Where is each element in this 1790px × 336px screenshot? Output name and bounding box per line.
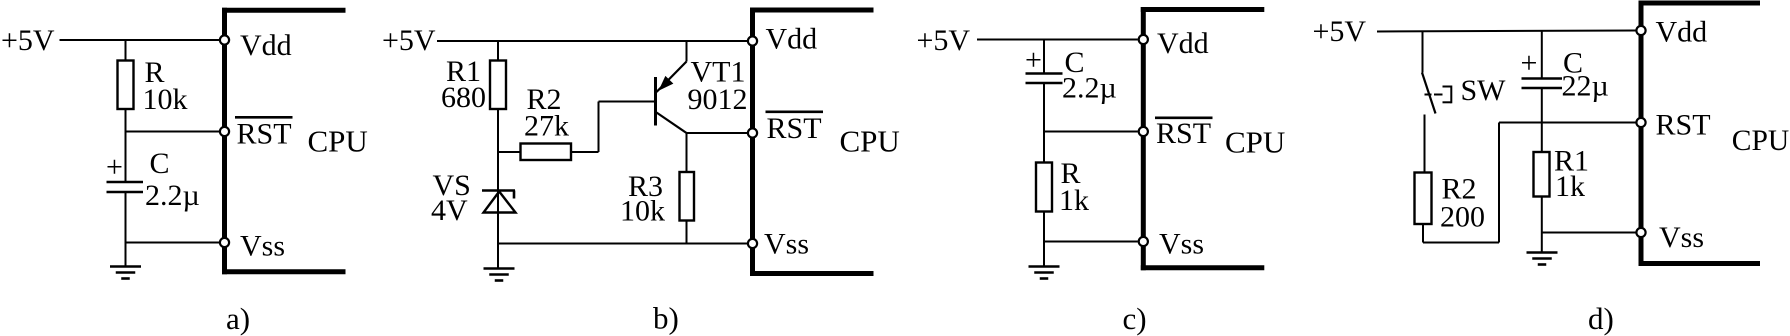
svg-text:+5V: +5V <box>1313 15 1367 48</box>
svg-text:Vdd: Vdd <box>1656 16 1708 49</box>
svg-text:200: 200 <box>1440 201 1485 234</box>
svg-text:Vdd: Vdd <box>766 23 818 56</box>
svg-text:+: + <box>1025 43 1042 76</box>
svg-text:d): d) <box>1588 301 1614 336</box>
svg-text:1k: 1k <box>1555 170 1585 203</box>
svg-text:+5V: +5V <box>1 24 55 57</box>
svg-text:CPU: CPU <box>1732 125 1789 157</box>
svg-text:CPU: CPU <box>308 123 368 158</box>
svg-text:+5V: +5V <box>917 24 971 57</box>
svg-text:Vss: Vss <box>1159 227 1204 260</box>
svg-text:10k: 10k <box>143 83 188 116</box>
svg-text:a): a) <box>226 301 250 336</box>
svg-text:2.2µ: 2.2µ <box>1062 72 1117 105</box>
svg-text:+5V: +5V <box>382 24 436 57</box>
svg-text:RST: RST <box>237 118 292 151</box>
svg-text:2.2µ: 2.2µ <box>145 179 200 212</box>
svg-text:+: + <box>1521 47 1538 80</box>
svg-text:SW: SW <box>1461 74 1507 107</box>
svg-text:9012: 9012 <box>688 83 748 116</box>
svg-text:c): c) <box>1123 301 1147 336</box>
svg-text:RST: RST <box>1156 117 1211 150</box>
svg-text:27k: 27k <box>524 110 569 143</box>
svg-text:Vdd: Vdd <box>1157 27 1209 60</box>
svg-text:Vss: Vss <box>764 228 809 261</box>
svg-text:RST: RST <box>1656 109 1711 142</box>
svg-text:680: 680 <box>441 81 486 114</box>
svg-text:Vdd: Vdd <box>240 29 292 62</box>
svg-text:b): b) <box>653 301 679 336</box>
svg-text:CPU: CPU <box>1225 124 1285 159</box>
svg-text:1k: 1k <box>1059 184 1089 217</box>
svg-text:RST: RST <box>767 112 822 145</box>
svg-text:+: + <box>106 151 123 184</box>
svg-text:C: C <box>150 147 170 180</box>
svg-text:Vss: Vss <box>1659 221 1704 254</box>
svg-text:22µ: 22µ <box>1562 70 1609 103</box>
svg-text:10k: 10k <box>620 195 665 228</box>
svg-text:CPU: CPU <box>840 123 900 158</box>
svg-text:4V: 4V <box>431 194 468 227</box>
svg-text:Vss: Vss <box>240 230 285 263</box>
